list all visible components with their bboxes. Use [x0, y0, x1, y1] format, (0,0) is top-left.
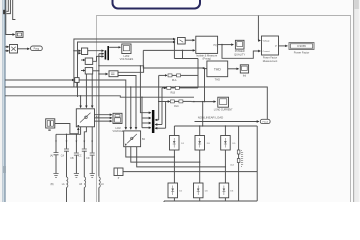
svg-text:THD: THD: [215, 77, 220, 81]
svg-text:PQ: PQ: [214, 45, 218, 47]
svg-text:(A): (A): [50, 154, 53, 157]
svg-text:CD: CD: [86, 158, 90, 160]
svg-text:CC: CC: [78, 155, 82, 157]
svg-text:RLA: RLA: [172, 79, 177, 82]
svg-text:LB: LB: [79, 184, 82, 186]
svg-text:LOAD CURRENT: LOAD CURRENT: [214, 108, 233, 111]
svg-text:CA: CA: [61, 154, 65, 157]
svg-text:(Pmag): (Pmag): [202, 57, 211, 61]
svg-text:Pavg: Pavg: [34, 47, 40, 50]
svg-text:Pload: Pload: [262, 122, 268, 124]
svg-text:0.9065: 0.9065: [297, 44, 306, 48]
svg-text:Voltage: Voltage: [263, 40, 271, 43]
svg-text:(B): (B): [50, 184, 53, 186]
svg-text:Power Factor: Power Factor: [294, 50, 310, 54]
svg-text:RLC: RLC: [174, 105, 179, 108]
svg-text:NONLINEAR LOAD: NONLINEAR LOAD: [198, 115, 224, 119]
svg-text:THD: THD: [214, 68, 222, 72]
svg-text:LA: LA: [62, 183, 65, 186]
svg-text:QUALITY: QUALITY: [234, 52, 245, 56]
svg-text:RLB: RLB: [170, 92, 175, 95]
svg-text:Measurement: Measurement: [263, 60, 278, 63]
svg-text:LC: LC: [101, 184, 104, 186]
svg-text:CB: CB: [70, 158, 74, 160]
svg-text:VOLTAGE: VOLTAGE: [113, 130, 124, 133]
svg-text:VOLTAGES: VOLTAGES: [120, 57, 134, 61]
svg-text:Current: Current: [263, 50, 270, 53]
